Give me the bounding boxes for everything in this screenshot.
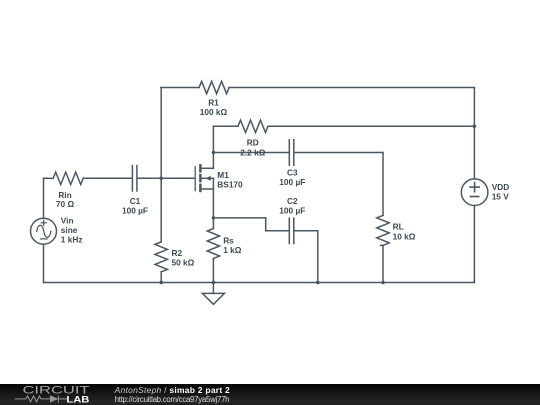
svg-text:R2: R2 (172, 248, 183, 258)
svg-text:1 kHz: 1 kHz (61, 235, 83, 245)
svg-text:100 µF: 100 µF (279, 177, 305, 187)
svg-text:10 kΩ: 10 kΩ (393, 231, 416, 241)
svg-text:100 µF: 100 µF (279, 206, 305, 216)
svg-text:M1: M1 (217, 170, 229, 180)
svg-text:100 kΩ: 100 kΩ (200, 107, 228, 117)
svg-text:C3: C3 (287, 167, 298, 177)
svg-text:50 kΩ: 50 kΩ (172, 258, 195, 268)
svg-text:2.2 kΩ: 2.2 kΩ (240, 147, 265, 157)
svg-text:Vin: Vin (61, 215, 74, 225)
svg-text:RL: RL (393, 222, 404, 232)
svg-text:C1: C1 (130, 196, 141, 206)
svg-text:http://circuitlab.com/cca97ya5: http://circuitlab.com/cca97ya5wj77h (115, 395, 230, 404)
svg-text:R1: R1 (208, 97, 219, 107)
svg-text:LAB: LAB (66, 395, 89, 405)
svg-text:VDD: VDD (492, 182, 510, 192)
svg-text:70 Ω: 70 Ω (56, 199, 75, 209)
svg-text:100 µF: 100 µF (122, 206, 148, 216)
svg-text:Rs: Rs (223, 235, 234, 245)
svg-text:AntonSteph / simab 2 part 2: AntonSteph / simab 2 part 2 (114, 385, 230, 395)
svg-text:BS170: BS170 (217, 180, 243, 190)
svg-text:C2: C2 (287, 196, 298, 206)
svg-text:RD: RD (247, 137, 259, 147)
svg-text:15 V: 15 V (492, 192, 510, 202)
svg-text:sine: sine (61, 225, 78, 235)
svg-text:1 kΩ: 1 kΩ (223, 245, 242, 255)
